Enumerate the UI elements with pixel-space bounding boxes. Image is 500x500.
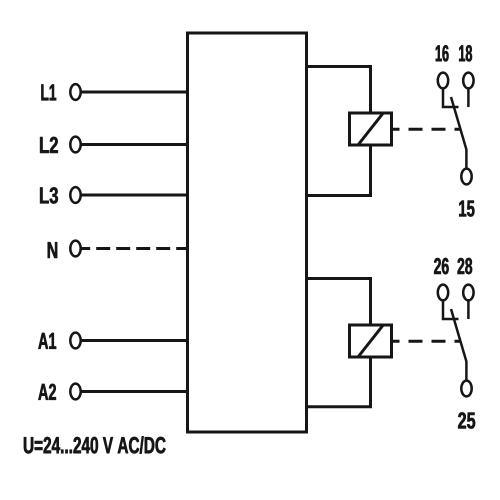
terminal A1 [70, 333, 80, 349]
relay coil K1 [350, 113, 392, 145]
label 18 [459, 45, 472, 61]
pin 18 lead [467, 89, 470, 107]
wire N (dashed) [81, 247, 187, 250]
wire L2 [81, 143, 187, 146]
contact terminal 18 [463, 73, 473, 89]
label L2 [40, 137, 58, 153]
label 26 [434, 258, 449, 274]
label 16 [436, 45, 449, 61]
wire A1 [81, 339, 187, 342]
wire relay K2 top [307, 279, 371, 326]
wire relay K1 bottom [307, 145, 371, 196]
label L1 [41, 84, 56, 100]
switch arm 15-16 [451, 97, 466, 169]
device body [188, 33, 307, 432]
terminal L2 [70, 137, 80, 153]
label 28 [458, 258, 473, 274]
terminal A2 [70, 384, 80, 400]
supply voltage label [24, 436, 166, 453]
contact terminal 25 [461, 381, 471, 397]
mechanical link K1 (dashed) [393, 128, 462, 131]
wire relay K2 bottom [307, 357, 371, 407]
label N [48, 242, 57, 258]
contact terminal 28 [463, 285, 473, 301]
mechanical link K2 (dashed) [393, 340, 462, 343]
switch arm 25-26 [451, 309, 466, 381]
relay coil K2 [350, 325, 392, 357]
contact terminal 26 [438, 285, 448, 301]
pin 28 lead [467, 301, 470, 319]
wire L3 [81, 194, 187, 197]
terminal L3 [70, 187, 80, 203]
label 25 [458, 412, 475, 428]
wire A2 [81, 390, 187, 393]
wire L1 [81, 91, 187, 94]
wire relay K1 top [307, 67, 371, 114]
label 15 [459, 201, 474, 217]
label A1 [38, 333, 56, 349]
label A2 [38, 384, 56, 400]
contact terminal 15 [461, 169, 471, 185]
contact terminal 16 [438, 73, 448, 89]
pin 26 lead [443, 301, 459, 319]
terminal N [70, 241, 80, 257]
label L3 [40, 187, 58, 203]
pin 16 lead [443, 89, 459, 107]
terminal L1 [70, 84, 80, 100]
